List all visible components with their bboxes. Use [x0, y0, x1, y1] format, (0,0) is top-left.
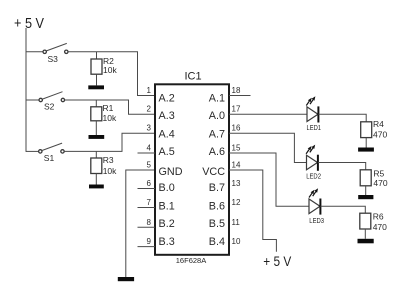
- svg-text:5: 5: [147, 161, 152, 170]
- svg-text:14: 14: [232, 161, 241, 170]
- pin 4 stub: [138, 152, 156, 154]
- resistor R5: [360, 168, 388, 188]
- svg-text:A.2: A.2: [159, 93, 175, 105]
- LED LED2: [306, 145, 321, 181]
- svg-text:A.7: A.7: [209, 129, 225, 141]
- svg-text:S3: S3: [48, 54, 59, 64]
- svg-text:A.5: A.5: [159, 146, 175, 158]
- svg-text:470: 470: [373, 129, 387, 139]
- svg-text:R5: R5: [373, 168, 384, 178]
- svg-text:A.4: A.4: [159, 129, 175, 141]
- svg-text:R3: R3: [103, 155, 114, 165]
- svg-text:10k: 10k: [103, 166, 117, 176]
- svg-text:A.3: A.3: [159, 110, 175, 122]
- svg-text:12: 12: [232, 198, 241, 207]
- svg-text:B.1: B.1: [159, 200, 175, 212]
- svg-text:+ 5 V: + 5 V: [263, 253, 292, 269]
- IC IC1 (16F628A) body: [155, 84, 229, 255]
- wire S2 to IC pin 2: [65, 100, 155, 114]
- wire R6 to ground: [364, 229, 366, 239]
- svg-text:17: 17: [232, 105, 241, 114]
- resistor R6: [360, 211, 387, 232]
- svg-text:10: 10: [232, 237, 241, 246]
- wire pin 16 to LED2: [229, 133, 307, 162]
- svg-text:B.5: B.5: [209, 218, 225, 230]
- svg-text:10k: 10k: [103, 65, 117, 75]
- svg-text:IC1: IC1: [185, 71, 202, 83]
- ground symbol under R4: [358, 148, 374, 152]
- svg-text:A.1: A.1: [209, 93, 225, 105]
- wire junction to R2: [96, 52, 98, 59]
- ground symbol under R3: [89, 185, 104, 189]
- wire +5V vertical rail: [25, 28, 27, 152]
- wire LED2 to R5: [318, 163, 366, 170]
- svg-text:GND: GND: [159, 166, 183, 178]
- wire pin 14 VCC to +5V terminal: [229, 170, 276, 252]
- svg-text:9: 9: [147, 237, 152, 246]
- resistor R4: [361, 119, 388, 140]
- svg-text:LED3: LED3: [309, 218, 324, 225]
- svg-text:R1: R1: [103, 103, 114, 113]
- wire R3 to ground: [95, 174, 97, 185]
- switch S2: [26, 92, 65, 112]
- wire GND pin 5 to bottom ground: [126, 170, 155, 277]
- wire pin 15 to LED3: [229, 153, 309, 206]
- svg-text:10k: 10k: [103, 113, 117, 123]
- wire R4 to ground: [365, 138, 367, 148]
- pin 7 stub: [138, 207, 156, 209]
- svg-text:16: 16: [232, 124, 241, 133]
- svg-text:4: 4: [147, 144, 152, 153]
- svg-text:3: 3: [147, 124, 152, 133]
- svg-text:A.6: A.6: [209, 146, 225, 158]
- svg-text:1: 1: [147, 86, 152, 95]
- pin 9 stub: [138, 246, 156, 248]
- svg-text:470: 470: [373, 222, 387, 232]
- svg-text:18: 18: [232, 86, 241, 95]
- wire pin 17 to LED1: [229, 113, 307, 115]
- ground symbol under R2: [88, 85, 104, 89]
- svg-text:15: 15: [232, 144, 241, 153]
- wire R2 to ground: [96, 74, 98, 85]
- svg-text:LED2: LED2: [306, 174, 321, 181]
- svg-text:S1: S1: [44, 153, 55, 163]
- svg-text:S2: S2: [44, 102, 55, 112]
- resistor R1: [91, 103, 117, 123]
- wire S3 to IC pin 1: [68, 52, 155, 96]
- svg-text:R6: R6: [373, 211, 384, 221]
- svg-text:B.2: B.2: [159, 218, 175, 230]
- svg-text:13: 13: [232, 179, 241, 188]
- switch S3: [26, 43, 68, 63]
- svg-text:7: 7: [147, 198, 152, 207]
- svg-text:470: 470: [373, 178, 387, 188]
- wire LED1 to R4: [318, 114, 366, 122]
- resistor R2: [91, 56, 117, 75]
- resistor R3: [91, 155, 117, 176]
- svg-text:2: 2: [147, 105, 152, 114]
- svg-text:B.4: B.4: [209, 236, 225, 248]
- svg-text:B.0: B.0: [159, 182, 175, 194]
- LED LED1: [306, 96, 321, 132]
- svg-text:B.3: B.3: [159, 236, 175, 248]
- ground symbol under R6: [358, 239, 374, 244]
- wire junction to R3: [95, 151, 97, 158]
- svg-text:R4: R4: [373, 119, 384, 129]
- pin 6 stub: [138, 188, 156, 190]
- ground symbol under R5: [358, 195, 373, 199]
- svg-text:8: 8: [147, 218, 152, 227]
- pin 8 stub: [138, 226, 156, 228]
- switch S1: [26, 143, 64, 163]
- svg-text:A.0: A.0: [209, 110, 225, 122]
- svg-text:B.6: B.6: [209, 200, 225, 212]
- svg-text:+ 5 V: + 5 V: [14, 16, 44, 32]
- svg-text:16F628A: 16F628A: [176, 256, 206, 265]
- wire R1 to ground: [95, 121, 97, 135]
- svg-text:11: 11: [232, 218, 241, 227]
- svg-text:LED1: LED1: [307, 125, 322, 132]
- ground symbol under R1: [89, 135, 105, 139]
- wire junction to R1: [95, 100, 97, 107]
- LED LED3: [309, 188, 324, 225]
- wire R5 to ground: [365, 186, 367, 195]
- wire LED3 to R6: [320, 206, 365, 213]
- svg-text:6: 6: [147, 179, 152, 188]
- pin 18 stub: [229, 95, 251, 97]
- svg-text:VCC: VCC: [202, 166, 225, 178]
- svg-text:B.7: B.7: [209, 182, 225, 194]
- ground symbol bottom (IC GND): [118, 277, 134, 281]
- wire S1 to IC pin 3: [64, 133, 155, 151]
